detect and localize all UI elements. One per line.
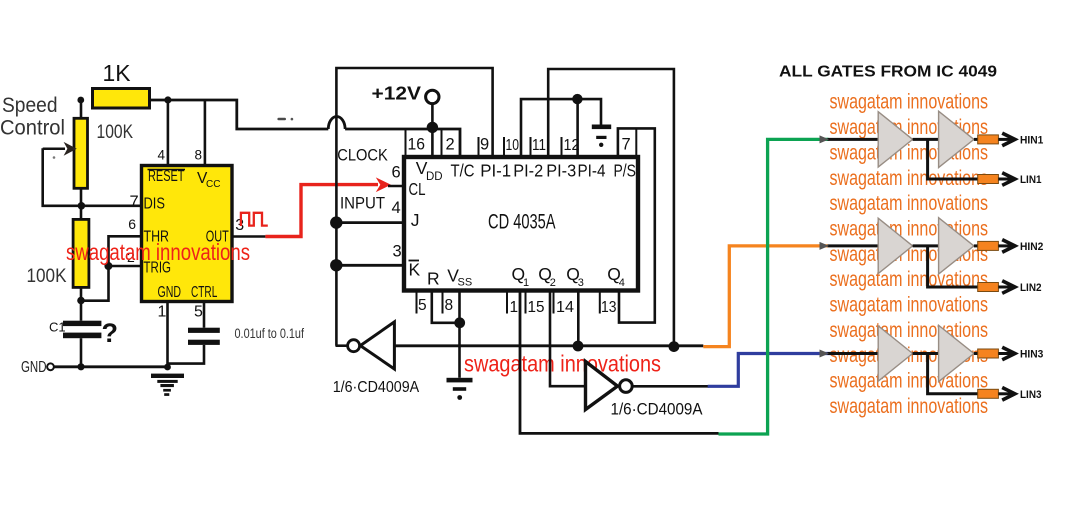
svg-text:DIS: DIS <box>144 196 166 213</box>
pin stub 5 left <box>416 292 418 314</box>
buffer gate A1 (IC 4049) <box>878 112 912 167</box>
ground symbol middle <box>447 378 473 400</box>
wire pin12 to link <box>576 99 579 155</box>
pin stub 16 left <box>405 129 407 155</box>
svg-text:GND: GND <box>21 359 47 376</box>
wire blue channel 3 <box>708 354 836 387</box>
svg-text:swagatam innovations: swagatam innovations <box>830 191 989 215</box>
svg-text:6: 6 <box>392 164 401 182</box>
arrowhead red at CL pin <box>376 177 391 192</box>
pin stub 12 left <box>561 137 563 155</box>
watermark column swagatam innovations <box>830 90 989 418</box>
overline K bar <box>409 260 420 262</box>
svg-text:14: 14 <box>556 299 574 316</box>
node 555 pin1 ground junction <box>164 364 171 371</box>
overline for RESET <box>148 169 186 171</box>
svg-text:0.01uf to 0.1uf: 0.01uf to 0.1uf <box>235 326 305 341</box>
arrowhead HIN2 <box>1002 240 1015 253</box>
svg-text:HIN2: HIN2 <box>1020 241 1043 253</box>
wire pot1 bottom to DIS node <box>80 188 83 219</box>
wire C1 bottom to ground rail <box>80 338 83 367</box>
ground symbol 555 <box>151 374 184 396</box>
wire 555 pin8 to rail <box>204 100 207 166</box>
buffer gate A2 (IC 4049) <box>878 218 912 273</box>
svg-text:100K: 100K <box>97 122 134 143</box>
svg-text:?: ? <box>102 318 119 348</box>
svg-text:C1: C1 <box>49 320 66 335</box>
pin stub 7 right vertical <box>635 128 637 155</box>
wire CL pin6 stub <box>388 185 405 188</box>
resistor LIN3 <box>978 389 999 398</box>
pin stub 7 box and wire to pin13 <box>618 128 655 322</box>
svg-text:13: 13 <box>601 299 617 316</box>
pin stub 15 left <box>525 292 527 314</box>
buffer gate B1 (IC 4049) <box>939 111 974 167</box>
wire CTRL cap to ground <box>168 345 204 364</box>
svg-text:PI-2: PI-2 <box>513 161 543 181</box>
resistor HIN3 <box>978 349 999 358</box>
wire OUT pin3 stub <box>232 235 265 238</box>
IC 555 body <box>142 166 233 302</box>
pulse waveform symbol red <box>241 213 268 226</box>
arrowhead LIN2 <box>1002 281 1015 294</box>
pin stub 1 left <box>506 292 508 314</box>
IC CD4035A bottom row labels <box>409 260 625 290</box>
svg-text:DD: DD <box>426 171 443 183</box>
svg-text:1: 1 <box>510 299 519 316</box>
wire pin5 to pin8 ground <box>432 292 460 323</box>
svg-text:CD 4035A: CD 4035A <box>488 210 556 234</box>
wire pin10 pin12 to ground link <box>521 99 601 155</box>
wire gate B2 output <box>974 244 978 247</box>
wire 555 pin5 to cap <box>203 302 206 328</box>
wire pot2 bottom to C1 node <box>80 288 83 321</box>
svg-text:LIN1: LIN1 <box>1020 174 1042 186</box>
arrowhead LIN3 <box>1002 388 1015 401</box>
pin stub 11 left <box>530 137 532 155</box>
svg-text:3: 3 <box>578 277 584 289</box>
ground symbol top <box>592 125 611 148</box>
resistor HIN2 <box>978 241 999 250</box>
svg-text:7: 7 <box>622 136 631 154</box>
capacitor C1 <box>63 321 101 339</box>
svg-text:swagatam innovations: swagatam innovations <box>66 239 250 265</box>
svg-text:P/S: P/S <box>614 161 637 181</box>
wire between gates row 2 <box>913 244 939 247</box>
svg-text:2: 2 <box>446 136 455 154</box>
wire tap to LIN3 <box>928 354 978 394</box>
wire feedback bus <box>394 344 703 347</box>
wire Q1 pin1 down to bottom run <box>520 292 719 433</box>
svg-text:15: 15 <box>528 299 545 316</box>
svg-text:1: 1 <box>523 277 529 289</box>
resistor LIN1 <box>978 175 999 184</box>
wire tap to LIN2 <box>928 246 978 287</box>
svg-text:6: 6 <box>128 216 136 232</box>
wire 555 pin4 to rail <box>167 100 170 166</box>
wire wiper feedback loop to pot bottom <box>43 148 82 206</box>
wire gate B1 output <box>974 138 978 141</box>
buffer gate A3 (IC 4049) <box>878 326 912 381</box>
svg-text:R: R <box>427 269 440 289</box>
svg-text:J: J <box>411 210 420 230</box>
svg-text:RESET: RESET <box>148 168 185 185</box>
wire tap to LIN1 <box>928 139 978 179</box>
inverter U3 1/6 CD4009A bottom <box>586 362 710 410</box>
wire pot1 top to rail <box>80 100 83 118</box>
pin stub 8 left <box>442 292 444 314</box>
pin stub 13 left <box>599 292 601 314</box>
node pin4-rail junction <box>164 96 171 103</box>
resistor HIN1 <box>978 135 999 144</box>
svg-text:1/6·CD4009A: 1/6·CD4009A <box>333 379 420 396</box>
wire arrow HIN1 <box>998 138 1012 141</box>
svg-text:+12V: +12V <box>372 83 422 104</box>
svg-text:3: 3 <box>393 243 402 261</box>
wire input row 1 <box>828 138 879 141</box>
wire arrow LIN1 <box>998 178 1012 181</box>
resistor 1K <box>93 89 150 109</box>
wiper arrow of potentiometer <box>43 142 77 156</box>
svg-text:T/C: T/C <box>451 161 475 181</box>
svg-text:11: 11 <box>532 137 546 154</box>
resistor 100K lower body <box>73 219 89 287</box>
svg-text:9: 9 <box>480 136 489 154</box>
svg-text:ALL GATES FROM IC 4049: ALL GATES FROM IC 4049 <box>779 64 997 81</box>
wire +12V rail from 1K to pin2 with hop <box>150 100 460 155</box>
svg-text:3: 3 <box>235 217 244 234</box>
wire between gates row 1 <box>913 138 939 141</box>
svg-text:8: 8 <box>195 148 203 163</box>
svg-text:K: K <box>409 260 421 280</box>
svg-text:1: 1 <box>158 304 167 321</box>
node bus Q3 junction <box>573 341 584 352</box>
IC CD4035A top row labels <box>409 158 637 199</box>
svg-text:10: 10 <box>506 137 520 154</box>
svg-text:CTRL: CTRL <box>191 284 218 301</box>
pin stub 9 left <box>478 137 480 155</box>
node TRIG junction <box>104 262 112 270</box>
potentiometer 100K speed control body <box>74 118 88 188</box>
node J junction <box>330 216 342 228</box>
svg-text:Control: Control <box>0 117 65 140</box>
wire top feedback box2 (pin11 to bottom bus) <box>548 69 674 347</box>
inverter U2 1/6 CD4009A left <box>336 322 395 369</box>
small arrow input row 1 <box>820 135 830 143</box>
wire J pin4 <box>336 221 405 224</box>
svg-text:2: 2 <box>550 277 556 289</box>
svg-text:CLOCK: CLOCK <box>337 146 388 165</box>
arrowhead LIN1 <box>1002 173 1015 186</box>
wire red clock from 555 OUT to CD4035 CL <box>265 185 378 237</box>
node DIS junction <box>78 202 86 210</box>
wire arrow LIN2 <box>998 286 1012 289</box>
svg-text:100K: 100K <box>27 266 67 287</box>
arrowhead HIN1 <box>1002 133 1015 146</box>
svg-text:swagatam innovations: swagatam innovations <box>830 394 989 418</box>
small arrow input row 2 <box>820 242 830 250</box>
svg-text:1/6·CD4009A: 1/6·CD4009A <box>611 400 704 419</box>
node pot2 bottom junction <box>77 297 85 305</box>
svg-text:PI-3: PI-3 <box>546 161 576 181</box>
svg-text:swagatam innovations: swagatam innovations <box>830 90 989 114</box>
node pot1-rail junction <box>77 97 84 104</box>
wire ground rail <box>54 365 168 368</box>
arrowhead HIN3 <box>1002 347 1015 360</box>
resistor LIN2 <box>978 283 999 292</box>
svg-text:GND: GND <box>158 284 182 301</box>
svg-text:PI-4: PI-4 <box>578 161 606 181</box>
wire TRIG pin <box>109 265 142 268</box>
wire green channel 1 <box>719 139 829 434</box>
node pin12 link junction <box>572 94 582 104</box>
wire pin8 Vss to ground <box>458 292 461 378</box>
wire Q2 pin15 to inverter input <box>550 292 586 386</box>
svg-text:LIN3: LIN3 <box>1020 389 1042 401</box>
scan speck <box>53 156 56 159</box>
svg-text:4: 4 <box>158 148 166 163</box>
wire arrow LIN3 <box>998 392 1012 395</box>
capacitor 0.01uf on CTRL <box>188 328 220 345</box>
svg-text:1K: 1K <box>103 60 132 86</box>
wire input row 2 <box>828 244 879 247</box>
wire +12V to pin16 <box>431 104 434 155</box>
terminal +12V open circle <box>426 90 439 103</box>
pin stub 14 left <box>553 292 555 314</box>
node bus pin11 junction <box>669 341 680 352</box>
svg-text:HIN3: HIN3 <box>1020 349 1043 361</box>
svg-text:SS: SS <box>458 277 473 289</box>
buffer gate B3 (IC 4049) <box>939 325 974 381</box>
terminal GND open circle <box>47 363 54 370</box>
wire 555 pin1 to ground <box>166 302 169 368</box>
wire K pin3 <box>336 264 405 267</box>
svg-text:swagatam innovations: swagatam innovations <box>830 293 989 317</box>
IC CD4035A body <box>404 157 638 291</box>
wire DIS pin7 <box>81 205 141 208</box>
wire orange channel 2 <box>703 246 827 347</box>
svg-text:Speed: Speed <box>2 94 58 117</box>
svg-text:HIN1: HIN1 <box>1020 135 1043 147</box>
small arrow input row 3 <box>820 350 830 358</box>
svg-text:12: 12 <box>564 137 580 154</box>
svg-text:4: 4 <box>392 199 401 217</box>
svg-text:5: 5 <box>194 304 203 321</box>
svg-text:4: 4 <box>619 277 625 289</box>
node C1-ground junction <box>77 363 84 370</box>
svg-text:swagatam innovations: swagatam innovations <box>464 351 661 377</box>
svg-text:INPUT: INPUT <box>340 195 385 213</box>
svg-text:7: 7 <box>130 193 139 211</box>
wire arrow HIN3 <box>998 352 1012 355</box>
label Speed Control <box>0 94 65 140</box>
wire Q3 pin14 to bus <box>577 292 580 346</box>
svg-text:CC: CC <box>206 179 220 190</box>
wire gate B3 output <box>974 352 978 355</box>
wire top feedback box1 (inverter output to J K PI-1) <box>336 68 492 346</box>
wire THR TRIG tie <box>81 236 141 300</box>
svg-text:16: 16 <box>408 136 426 154</box>
pin stub 10 left <box>503 137 505 155</box>
pin stub 2 left <box>441 129 443 155</box>
svg-text:swagatam innovations: swagatam innovations <box>830 318 989 342</box>
wire between gates row 3 <box>913 352 939 355</box>
svg-text:8: 8 <box>445 297 454 314</box>
wire arrow HIN2 <box>998 244 1012 247</box>
svg-text:LIN2: LIN2 <box>1020 282 1042 294</box>
svg-text:PI-1: PI-1 <box>480 161 511 181</box>
node K junction <box>330 259 342 271</box>
node pin8 junction <box>454 317 465 328</box>
wire input row 3 <box>828 352 879 355</box>
svg-text:5: 5 <box>418 297 427 314</box>
scan artifact dash <box>277 118 286 121</box>
svg-text:swagatam innovations: swagatam innovations <box>830 369 989 393</box>
node +12V rail junction <box>427 122 438 133</box>
IC 555 labels <box>144 168 230 301</box>
svg-text:swagatam innovations: swagatam innovations <box>830 216 989 240</box>
svg-text:CL: CL <box>409 179 426 199</box>
buffer gate B2 (IC 4049) <box>939 218 974 274</box>
